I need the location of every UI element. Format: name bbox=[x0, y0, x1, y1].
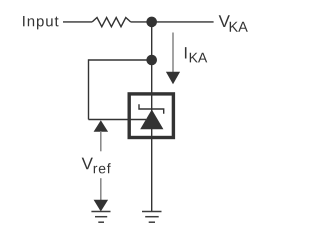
label Vref halo bbox=[80, 151, 112, 178]
zener triangle anode bbox=[140, 110, 163, 130]
node Input label bbox=[23, 16, 58, 29]
wire: resistor to VKA bbox=[131, 21, 214, 23]
resistor R1 bbox=[92, 18, 130, 27]
junction dot: cathode top node bbox=[146, 17, 157, 28]
Vref arrow up head bbox=[94, 120, 109, 132]
wire: cathode vertical (top node to ground) bbox=[151, 22, 153, 211]
label Vref bbox=[82, 158, 111, 174]
ground left (Vref reference) bbox=[91, 212, 110, 223]
junction dot: feedback node bbox=[146, 55, 157, 66]
label IKA bbox=[185, 47, 207, 62]
wire: feedback vertical left bbox=[88, 59, 90, 119]
ground right (anode) bbox=[142, 212, 162, 223]
current arrow IKA head bbox=[166, 72, 180, 85]
zener cathode bar bbox=[139, 104, 164, 113]
shunt regulator U1 box bbox=[129, 94, 173, 138]
wire: feedback horizontal top bbox=[89, 59, 152, 61]
Vref arrow down head bbox=[94, 200, 109, 212]
wire: feedback to reference pin bbox=[89, 119, 147, 121]
Vref arrow shaft bbox=[100, 131, 102, 200]
wire: Input to resistor bbox=[63, 21, 92, 23]
node VKA label bbox=[219, 15, 248, 31]
current arrow IKA shaft bbox=[172, 33, 174, 74]
